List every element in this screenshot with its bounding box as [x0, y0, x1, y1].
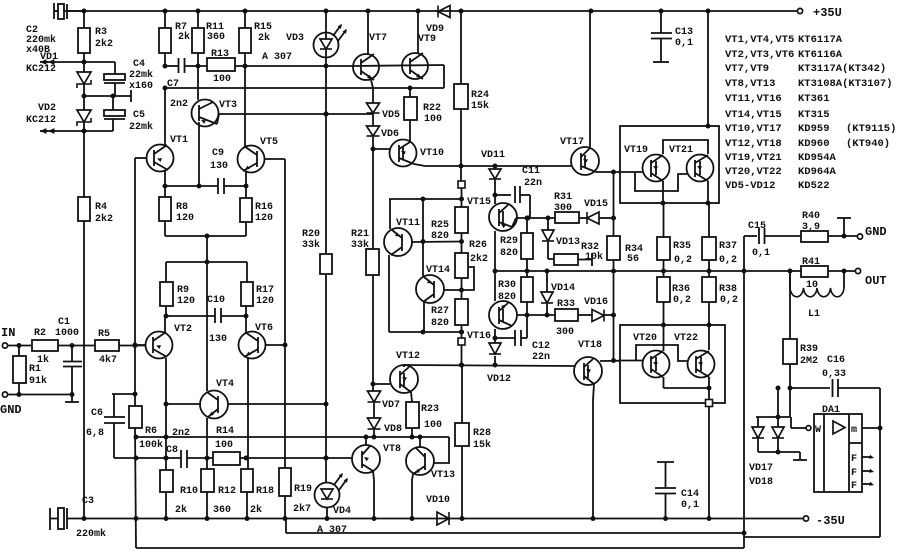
resistor R18: [241, 469, 253, 492]
svg-text:KD964A: KD964A: [798, 166, 837, 178]
svg-text:VD5: VD5: [382, 110, 400, 121]
svg-text:R16: R16: [255, 202, 273, 213]
svg-text:F: F: [851, 468, 857, 479]
capacitor C3: [49, 508, 51, 530]
svg-text:C3: C3: [82, 496, 94, 507]
transistor VT8: [365, 437, 367, 445]
svg-text:VT17: VT17: [560, 137, 584, 148]
box output pair upper: [620, 126, 719, 203]
svg-text:VD6: VD6: [381, 129, 399, 140]
svg-text:VT11,VT16: VT11,VT16: [725, 93, 782, 105]
svg-text:VD12: VD12: [487, 374, 511, 385]
wire VD6-R21: [372, 137, 374, 249]
svg-text:VD13: VD13: [556, 237, 580, 248]
wire R27-square: [461, 325, 463, 338]
wire VT20 emitter: [663, 377, 665, 388]
wire VT2 collector: [165, 358, 167, 470]
svg-text:3,9: 3,9: [802, 222, 820, 233]
svg-text:R35: R35: [673, 241, 691, 252]
wire VT1 base: [135, 157, 147, 159]
wire VT22 base jumper: [636, 345, 688, 361]
capacitor C12: [495, 337, 515, 339]
svg-text:R29: R29: [500, 236, 518, 247]
svg-text:100: 100: [213, 74, 231, 85]
resistor R29: [526, 218, 528, 233]
wire feedback drop: [285, 519, 287, 534]
wire VT11 collector: [389, 199, 391, 229]
resistor R17: [241, 282, 253, 306]
wire R28-rail: [461, 446, 463, 519]
wire VD17 rail upper: [756, 416, 791, 418]
resistor R22: [409, 88, 411, 97]
wire R6 bottom column: [135, 428, 136, 548]
svg-text:100: 100: [424, 114, 442, 125]
wire right enclosure: [879, 388, 881, 537]
wire R14-VT8 base: [240, 457, 352, 459]
svg-text:A 307: A 307: [262, 52, 292, 63]
wire VT16 base lower: [494, 329, 496, 343]
svg-text:VT15: VT15: [467, 197, 491, 208]
wire lower bias line: [136, 457, 181, 459]
wire -35V rail: [84, 518, 437, 520]
svg-text:C4: C4: [133, 59, 145, 70]
wire R39 column: [789, 271, 791, 339]
svg-text:33k: 33k: [302, 239, 320, 251]
svg-text:-35U: -35U: [816, 514, 845, 528]
resistor R21: [366, 249, 379, 275]
transistor VT6: [245, 316, 247, 333]
wire feedback line: [286, 532, 744, 534]
svg-text:15k: 15k: [471, 100, 489, 112]
svg-text:0,2: 0,2: [674, 255, 692, 266]
svg-text:R8: R8: [176, 202, 188, 213]
svg-text:VD9: VD9: [426, 24, 444, 35]
svg-text:R10: R10: [180, 486, 198, 497]
svg-text:VT14: VT14: [426, 265, 450, 276]
svg-text:VT14,VT15: VT14,VT15: [725, 109, 782, 121]
svg-text:VT10,VT17: VT10,VT17: [725, 123, 782, 135]
svg-text:R22: R22: [423, 103, 441, 114]
svg-text:R36: R36: [672, 284, 690, 295]
wire VD11 column: [494, 166, 496, 169]
transistor VT22: [688, 351, 715, 378]
transistor VT15: [489, 203, 517, 231]
svg-text:KT6117A: KT6117A: [798, 34, 843, 46]
svg-text:L1: L1: [808, 309, 820, 320]
capacitor C11: [495, 194, 511, 196]
svg-text:x160: x160: [129, 81, 153, 92]
svg-text:820: 820: [431, 318, 449, 329]
wire R5-VT2 base: [119, 345, 146, 347]
wire VT19 base: [621, 171, 643, 173]
svg-text:2M2: 2M2: [800, 356, 818, 367]
wire R23-baseline: [411, 428, 413, 437]
svg-text:300: 300: [556, 327, 574, 338]
wire emitter return bus: [165, 87, 444, 89]
wire VT11 emitter lower: [388, 255, 390, 332]
svg-text:VT4: VT4: [216, 379, 234, 390]
node VD3 base line: [324, 112, 329, 117]
resistor R39: [783, 339, 797, 364]
transistor VT1: [147, 145, 174, 172]
wire bias tap: [206, 236, 208, 262]
svg-text:2k2: 2k2: [95, 38, 113, 50]
svg-text:R19: R19: [294, 484, 312, 495]
svg-text:100: 100: [215, 440, 233, 451]
svg-text:VT12,VT18: VT12,VT18: [725, 138, 782, 150]
transistor VT11: [384, 228, 412, 256]
svg-text:KT315: KT315: [798, 109, 830, 121]
resistor R41: [801, 266, 828, 277]
resistor R33: [555, 309, 578, 321]
svg-text:100: 100: [424, 420, 442, 431]
wire VT11 base: [412, 241, 462, 244]
wire VT6 base: [266, 344, 285, 346]
wire VAS base line left: [136, 436, 449, 438]
svg-text:R28: R28: [473, 428, 491, 439]
wire VT5 base corner: [265, 158, 285, 160]
svg-text:OUT: OUT: [865, 274, 887, 288]
svg-text:0,2: 0,2: [673, 295, 691, 306]
diode VD6: [367, 126, 380, 136]
svg-text:KC212: KC212: [26, 115, 56, 126]
svg-text:C6: C6: [91, 408, 103, 419]
transistor VT21: [687, 155, 714, 182]
svg-text:KT6116A: KT6116A: [798, 49, 843, 61]
svg-text:22mk: 22mk: [129, 121, 153, 133]
svg-text:F: F: [851, 481, 857, 492]
wire mid column upper: [422, 199, 424, 276]
wire VT12 base: [373, 383, 390, 385]
resistor R11: [197, 11, 199, 28]
svg-text:2k: 2k: [178, 31, 190, 43]
svg-text:R15: R15: [254, 22, 272, 33]
resistor R9: [160, 282, 173, 306]
wire VT1 emitter: [164, 171, 166, 186]
node R26-R27: [461, 278, 463, 299]
wire VD8-baseline: [373, 430, 375, 437]
resistor R16: [245, 186, 247, 198]
resistor R36: [663, 271, 665, 277]
svg-text:2k2: 2k2: [95, 213, 113, 225]
transistor VT19: [643, 155, 670, 182]
resistor R28: [455, 423, 469, 446]
wire VT9 emitter corner: [443, 65, 445, 88]
resistor R37: [708, 203, 710, 237]
transistor VT16: [489, 301, 517, 329]
svg-text:R20: R20: [302, 229, 320, 240]
resistor R24: [460, 11, 462, 84]
zener VD1: [77, 72, 91, 84]
svg-text:56: 56: [627, 254, 639, 265]
svg-text:VT20: VT20: [633, 333, 657, 344]
node C2-R3: [82, 9, 87, 14]
svg-text:VD14: VD14: [551, 283, 575, 294]
svg-text:DA1: DA1: [822, 405, 840, 416]
wire VT20 collector: [663, 325, 665, 351]
svg-text:A 307: A 307: [317, 525, 347, 536]
wire W input: [790, 417, 792, 428]
wire m pin: [862, 427, 880, 429]
svg-text:91k: 91k: [29, 375, 47, 387]
wire bias tap lower: [206, 262, 208, 391]
wire VT4 emitter lower: [206, 418, 208, 469]
wire C5-arrow line: [84, 130, 113, 132]
svg-text:120: 120: [177, 296, 195, 307]
wire VT2 base: [135, 344, 146, 346]
svg-text:C16: C16: [827, 355, 845, 366]
wire base line corner to VT13: [434, 437, 449, 463]
svg-text:C14: C14: [681, 489, 699, 500]
wire C6 bottom link: [114, 457, 136, 459]
svg-text:VT19,VT21: VT19,VT21: [725, 152, 782, 164]
wire VD3-R20 column upper: [325, 57, 327, 254]
svg-text:R31: R31: [554, 192, 572, 203]
wire VT18 collector: [593, 384, 594, 400]
svg-text:VT11: VT11: [396, 218, 420, 229]
svg-text:VD5-VD12: VD5-VD12: [725, 180, 775, 192]
svg-text:C11: C11: [522, 166, 540, 177]
wire R37-bus: [708, 260, 710, 271]
capacitor C4: [114, 62, 116, 74]
zener VD2: [77, 110, 91, 122]
svg-text:VT16: VT16: [467, 331, 491, 342]
wire R34 column: [613, 172, 615, 236]
svg-text:R4: R4: [95, 202, 107, 213]
wire VD3 top: [325, 11, 327, 33]
transistor VT20: [643, 351, 670, 378]
wire bottom return line: [136, 547, 744, 549]
svg-text:VD2: VD2: [38, 103, 56, 114]
terminal -35V: [803, 516, 808, 521]
terminal OUT: [855, 268, 860, 273]
svg-text:2k: 2k: [258, 32, 270, 44]
diode VD12: [489, 343, 501, 354]
svg-text:C13: C13: [675, 27, 693, 38]
transistor VT17: [571, 147, 599, 175]
svg-text:GND: GND: [0, 403, 22, 417]
svg-text:120: 120: [256, 296, 274, 307]
svg-text:VT13: VT13: [431, 470, 455, 481]
diode VD16: [578, 314, 592, 316]
diode VD15: [579, 217, 587, 219]
wire VT18 emitter line: [600, 360, 643, 363]
inductor L1: [789, 271, 791, 288]
ground symbol DA1: [799, 452, 801, 459]
transistor VT18: [574, 357, 602, 385]
wire VT20 base: [621, 360, 643, 362]
wire VD2-arrow: [83, 122, 85, 131]
resistor R2: [32, 340, 58, 351]
wire VT19 emitter: [662, 181, 664, 203]
svg-text:R1: R1: [29, 364, 41, 375]
svg-text:C15: C15: [748, 221, 766, 232]
svg-text:VD15: VD15: [584, 199, 608, 210]
svg-text:C10: C10: [207, 295, 225, 306]
resistor R7: [164, 11, 166, 28]
svg-text:VT7,VT9: VT7,VT9: [725, 63, 769, 75]
svg-text:VT12: VT12: [396, 351, 420, 362]
box output pair lower: [620, 325, 725, 403]
svg-text:VD17: VD17: [749, 463, 773, 474]
node box1 top: [706, 124, 711, 129]
svg-text:2n2: 2n2: [172, 428, 190, 439]
svg-text:0,2: 0,2: [719, 255, 737, 266]
diode VD8: [368, 418, 381, 429]
wire R30-R33 node: [526, 302, 528, 338]
svg-text:W: W: [815, 425, 821, 436]
svg-text:R18: R18: [256, 486, 274, 497]
wire VD16 node to VT20 base line: [613, 315, 615, 361]
wire VT12 collector: [403, 365, 405, 367]
resistor R12: [201, 469, 214, 492]
svg-text:m: m: [851, 425, 857, 436]
capacitor C14: [657, 461, 674, 463]
LED VD4: [315, 483, 340, 508]
terminal square upper: [458, 181, 465, 188]
wire input column: [134, 158, 136, 394]
svg-text:VT6: VT6: [255, 323, 273, 334]
resistor R34: [607, 236, 620, 260]
wire bottom link line: [389, 331, 462, 333]
resistor R31: [555, 212, 579, 223]
svg-text:VD1: VD1: [40, 52, 58, 63]
svg-text:0,1: 0,1: [681, 500, 699, 511]
svg-text:R41: R41: [802, 257, 820, 268]
resistor R25: [461, 199, 463, 207]
svg-text:22n: 22n: [532, 352, 550, 363]
svg-text:C12: C12: [532, 341, 550, 352]
svg-text:VT9: VT9: [418, 34, 436, 45]
svg-text:VT8: VT8: [383, 444, 401, 455]
svg-text:1000: 1000: [55, 328, 79, 339]
terminal IN: [2, 343, 7, 348]
svg-text:R13: R13: [211, 49, 229, 60]
svg-text:R30: R30: [498, 280, 516, 291]
svg-text:100k: 100k: [139, 439, 163, 451]
svg-text:VD16: VD16: [584, 297, 608, 308]
wire VT6 collector: [247, 358, 249, 469]
svg-text:120: 120: [176, 213, 194, 224]
transistor VT5: [238, 146, 265, 173]
diode VD17: [757, 417, 759, 427]
svg-text:33k: 33k: [351, 239, 369, 251]
resistor R30: [526, 271, 528, 277]
wire R13 to VT7 base line: [235, 65, 353, 67]
svg-text:4k7: 4k7: [99, 354, 117, 366]
node box2 top b: [707, 323, 712, 328]
svg-text:KC212: KC212: [26, 64, 56, 75]
IC DA1: [814, 414, 862, 492]
svg-text:(KT940): (KT940): [846, 138, 890, 150]
svg-text:VT1,VT4,VT5: VT1,VT4,VT5: [725, 34, 794, 46]
capacitor C5: [112, 96, 114, 110]
wire R9-R17 top link: [166, 261, 247, 263]
svg-text:VD11: VD11: [481, 150, 505, 161]
svg-text:VT21: VT21: [669, 145, 693, 156]
svg-text:R3: R3: [95, 27, 107, 38]
svg-text:22n: 22n: [524, 178, 542, 189]
svg-text:C1: C1: [58, 317, 70, 328]
ground tee R40: [843, 218, 845, 236]
wire output bus: [495, 270, 855, 272]
svg-text:KD959: KD959: [798, 123, 830, 135]
svg-text:GND: GND: [865, 225, 887, 239]
node VD15-R34: [611, 216, 616, 221]
svg-text:R5: R5: [98, 329, 110, 340]
wire mid column lower: [423, 302, 425, 332]
wire IN-R2: [8, 345, 32, 347]
wire VT19 VT21 collectors: [663, 140, 708, 154]
resistor R26: [455, 253, 468, 278]
capacitor C7: [165, 65, 178, 67]
wire R34 node to VD16 line: [613, 271, 615, 315]
capacitor C6: [113, 394, 115, 417]
svg-text:2k2: 2k2: [470, 253, 488, 265]
wire R3-VD1: [83, 53, 85, 72]
resistor R35: [663, 203, 665, 237]
wire square-collector line: [461, 345, 463, 365]
diode VD11: [489, 169, 501, 179]
resistor R20: [320, 254, 332, 274]
svg-text:820: 820: [500, 248, 518, 259]
resistor R3: [83, 11, 85, 28]
resistor R5: [95, 340, 119, 351]
node R24 rail: [459, 9, 464, 14]
terminal GND input: [2, 392, 7, 397]
wire VT7 collector: [367, 11, 369, 54]
capacitor C16: [790, 387, 830, 389]
resistor R38: [708, 271, 710, 277]
svg-text:C8: C8: [166, 445, 178, 456]
svg-text:R25: R25: [431, 220, 449, 231]
svg-text:0,1: 0,1: [752, 248, 770, 259]
transistor VT12: [390, 365, 418, 393]
capacitor C10: [165, 306, 167, 316]
svg-text:(KT9115): (KT9115): [846, 123, 896, 135]
wire VT15-R31 line: [518, 217, 555, 219]
svg-text:R37: R37: [719, 241, 737, 252]
svg-text:VT8,VT13: VT8,VT13: [725, 78, 775, 90]
diode VD13: [547, 218, 549, 230]
capacitor C2: [53, 3, 55, 19]
svg-text:R40: R40: [802, 211, 820, 222]
wire C4-C5 midtap: [84, 95, 131, 97]
svg-text:KD954A: KD954A: [798, 152, 837, 164]
transistor VT3: [197, 53, 199, 100]
wire VT10 base: [373, 148, 390, 150]
wire square-VT15 node: [461, 188, 463, 199]
transistor VT10: [409, 120, 411, 141]
wire R8-R16 bottom link: [164, 221, 166, 236]
svg-text:VT22: VT22: [674, 333, 698, 344]
transistor VT9: [402, 53, 428, 79]
svg-text:6,8: 6,8: [86, 428, 104, 439]
resistor R10: [165, 469, 167, 471]
svg-text:IN: IN: [1, 326, 15, 340]
svg-text:VD4: VD4: [333, 506, 351, 517]
wire VT8 emitter: [373, 471, 374, 480]
resistor R1: [18, 346, 20, 357]
svg-text:220mk: 220mk: [76, 528, 106, 540]
wire VT1 collector: [164, 88, 166, 146]
transistor VT2: [164, 316, 166, 333]
wire VT15 emitter: [494, 231, 496, 271]
svg-text:0,2: 0,2: [720, 295, 738, 306]
svg-text:VD18: VD18: [749, 477, 773, 488]
svg-text:R14: R14: [216, 426, 234, 437]
wire VT11 top line: [389, 198, 462, 200]
